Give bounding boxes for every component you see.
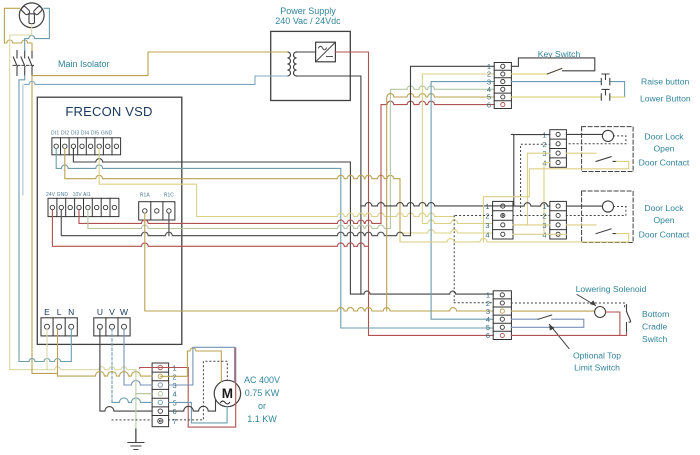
terminal block E L N (41, 318, 77, 336)
wire olive motor: strip row2 right, up and over to motor top-left (160, 348, 221, 382)
svg-text:Main Isolator: Main Isolator (58, 59, 110, 69)
wire key row1 black: strip to bus vertical (411, 66, 495, 235)
wire key row2 yellow: strip to bus vertical down to lock row3 (422, 74, 494, 224)
door lock unit 2: right terminal strip 1-4 (550, 201, 567, 239)
svg-text:Door Contact: Door Contact (639, 230, 690, 240)
svg-text:Power Supply: Power Supply (280, 6, 336, 16)
wire DI2 olive: across bus to door-contact chain (65, 149, 400, 242)
svg-text:4: 4 (173, 390, 177, 399)
terminal strip key switch 1-6 (494, 63, 511, 109)
terminal strip bottom 1-6 (493, 291, 511, 340)
wire earth: khaki bus down to ground and strip row4 (green) (135, 370, 137, 430)
svg-text:1: 1 (485, 202, 489, 211)
wire bottom row2 dotted to cradle switch (511, 303, 624, 308)
svg-text:R1A: R1A (140, 193, 150, 199)
wire lock1 row4 yellow via riser from lower row4 (544, 163, 550, 235)
wire DI1 teal: to bus vertical and bottom strip row5 (56, 149, 493, 329)
wire key row3 teal: strip to bus vertical down to bottom strip row4 (431, 82, 494, 320)
svg-text:U: U (97, 307, 103, 317)
wire lock1 row2 dotted riser (521, 144, 550, 215)
wire lock2 solenoid dotted return to row2 (566, 207, 626, 216)
wire GND yellow: DI GND down across to dotted net (99, 149, 454, 217)
wire lock2 row3 yellow link (513, 224, 596, 226)
wire blue motor: strip row3 right, up over to motor top (169, 347, 235, 385)
lock1 solenoid circle (602, 130, 613, 141)
wire L to motor strip row2 (olive) (58, 372, 153, 377)
svg-text:6: 6 (487, 100, 491, 109)
main isolator Q1 pole 2 (21, 51, 25, 76)
lock2 door contact switch (596, 229, 616, 234)
wire N terminal drop (teal) (70, 329, 72, 361)
wire dotted row7 to left (112, 419, 152, 421)
svg-text:V: V (109, 307, 115, 317)
wire W phase: W terminal to strip row3 (blue) (124, 329, 152, 385)
labels 1-4 lock2 left strip (485, 202, 489, 239)
lock2 solenoid circle (602, 201, 613, 212)
wire V phase: V terminal dashed to strip row5 (teal dashed) (111, 329, 113, 402)
svg-text:4: 4 (485, 230, 489, 239)
wire lock1 solenoid dotted return to row2 (566, 136, 626, 144)
svg-text:0.75 KW: 0.75 KW (245, 388, 280, 398)
svg-text:Raise button: Raise button (641, 77, 689, 87)
wire L terminal drop (olive) (57, 329, 59, 376)
wire 24Vdc 0V: transformer secondary bottom right and down (black) (297, 76, 494, 294)
door lock unit 1 dashed enclosure (582, 127, 634, 172)
svg-text:Open: Open (653, 215, 674, 225)
labels 1-4 lock2 right strip (542, 202, 546, 239)
wire lock2 row2 dotted link (513, 215, 550, 217)
wire dotted net: row2 to bus and bottom strip row2 (454, 216, 493, 303)
svg-text:M: M (222, 386, 233, 401)
svg-text:Limit Switch: Limit Switch (574, 363, 620, 373)
wire dotted earth: strip row7 to motor top (dotted) (169, 361, 228, 420)
wire 10V red: analog cell4 across bus up to key row6 (79, 101, 494, 223)
svg-text:Open: Open (653, 144, 674, 154)
wire grey motor: strip row6 right to motor bottom-left (169, 400, 216, 411)
wire lock1 contact return yellow (484, 161, 629, 242)
optional top limit switch (538, 315, 552, 319)
ground symbol (128, 429, 144, 450)
wire R1C drop (168, 213, 170, 236)
wire L: isolator pole3 down left bus to VSD L (olive) (32, 76, 58, 374)
svg-text:Cradle: Cradle (642, 322, 668, 332)
lowering solenoid L1 (595, 307, 606, 318)
door lock unit 1: terminal strip 1-4 (550, 130, 567, 168)
terminal strip motor 1-7 (152, 363, 169, 427)
svg-text:AC 400V: AC 400V (244, 375, 280, 385)
wire DI2 feed to lock strip row4 (400, 230, 493, 242)
wire bottom row3 olive to solenoid (511, 310, 594, 312)
wire lock2 contact return yellow to bus (400, 234, 629, 242)
wire L: plug to isolator (olive) (4, 8, 32, 50)
bottom cradle switch (627, 305, 631, 332)
AC/DC converter U1 (316, 42, 336, 62)
svg-text:W: W (120, 307, 128, 317)
wire lock2 row1 link between strips (513, 203, 602, 206)
svg-text:Lowering Solenoid: Lowering Solenoid (576, 284, 647, 294)
svg-text:FRECON VSD: FRECON VSD (65, 104, 152, 119)
wire E terminal drop (khaki) (46, 329, 48, 369)
terminal strip 24V/GND/10V/AI1 (48, 198, 119, 216)
svg-text:Door Lock: Door Lock (644, 132, 684, 142)
terminal strip R1A/R1B/R1C (139, 202, 175, 220)
door lock unit 2 dashed enclosure (582, 191, 634, 243)
wire secondary top to converter (297, 51, 316, 53)
svg-text:240 Vac / 24Vdc: 240 Vac / 24Vdc (275, 16, 341, 26)
svg-text:R1C: R1C (164, 193, 174, 199)
wire N: isolator pole2 down left bus to VSD N (teal) (19, 76, 71, 362)
mains plug P1 (19, 3, 44, 28)
door lock unit 2: left terminal strip 1-4 (493, 201, 513, 239)
wire lock1 row3 yellow feed riser (513, 153, 596, 225)
wire 24V red: analog cell1 across bus (52, 210, 368, 247)
svg-text:6: 6 (486, 331, 490, 340)
svg-text:or: or (258, 401, 266, 411)
wire DI3 grey: to bus vertical and bottom strip row1 (73, 149, 361, 295)
wire R1A olive: across to bottom strip row3 and key row5 (145, 213, 493, 311)
wire key row5 olive vertical (387, 94, 495, 311)
svg-text:1.1 KW: 1.1 KW (247, 414, 277, 424)
FRECON VSD enclosure box (37, 97, 182, 344)
svg-text:Door Contact: Door Contact (639, 158, 690, 168)
wire bottom row6 red to solenoid and cradle switch (511, 312, 626, 335)
labels 1-6 key strip (487, 62, 491, 109)
wire teal motor: strip row5 right, down under motor to bottom (169, 402, 228, 423)
transformer T1 secondary coil (294, 52, 297, 76)
svg-text:Lower Button: Lower Button (640, 94, 691, 104)
wire N: plug to isolator (teal) (25, 8, 50, 50)
wire key row5 to lower button (511, 96, 624, 98)
wire +24V red: converter to bus down (335, 52, 493, 335)
wire red motor loop: row1 right down around (188, 348, 236, 427)
terminal block U V W (94, 318, 130, 336)
wire red feed motor strip row1 (140, 367, 189, 370)
wire N branch stub (pale blue) (22, 84, 24, 195)
lock1 door contact switch (596, 157, 616, 162)
svg-text:DI1 DI2 DI3 DI4 DI5 GND: DI1 DI2 DI3 DI4 DI5 GND (51, 131, 113, 137)
wire N: tap to power supply primary bottom (pale blue) (25, 76, 288, 84)
main isolator Q1 pole 1 (13, 51, 34, 76)
terminal strip DI1..DI5/GND (52, 138, 121, 155)
lower button PB2 (601, 89, 610, 100)
svg-text:24V GND 10V AI1: 24V GND 10V AI1 (46, 192, 91, 198)
svg-text:N: N (68, 307, 74, 317)
raise button PB1 (601, 74, 610, 85)
wire door lock row1 feed from 0V bus (361, 202, 514, 205)
wire lock1 row1 feed and to solenoid (511, 133, 602, 135)
svg-text:3: 3 (485, 221, 489, 230)
main isolator Q1 pole 3 (28, 51, 32, 76)
svg-text:Optional Top: Optional Top (573, 351, 621, 361)
motor M1 (214, 380, 240, 406)
labels 1-6 bottom strip (486, 291, 490, 341)
labels 1-7 motor strip (173, 364, 177, 427)
svg-text:Switch: Switch (642, 334, 668, 344)
svg-text:Door Lock: Door Lock (644, 203, 684, 213)
svg-text:E: E (44, 307, 50, 317)
wire key row3 to raise button (511, 82, 624, 97)
wire E: plug pin down to left bus (khaki) (10, 24, 136, 370)
wire lock2 row4 yellow link (513, 233, 566, 235)
wire bottom row4 blue through limit switch (511, 319, 583, 327)
labels 1-4 lock1 strip (542, 130, 546, 167)
wire GND grey: analog cell2 and R1C across bus to key row1 vertical (61, 210, 410, 236)
isolator interlock dashed bar (13, 64, 34, 66)
key switch SW1 symbol and loop (511, 58, 594, 71)
power supply box (271, 31, 351, 100)
svg-text:L: L (57, 307, 62, 317)
transformer T1 primary coil (288, 52, 291, 76)
wire AI1 green: analog cell5 across bus up to key row4 (88, 86, 494, 229)
wire L: isolator tap to power supply (olive) (32, 52, 288, 76)
svg-text:Bottom: Bottom (642, 309, 669, 319)
wire U phase: U terminal to strip row6 (grey) (100, 329, 152, 411)
svg-text:7: 7 (173, 417, 177, 426)
